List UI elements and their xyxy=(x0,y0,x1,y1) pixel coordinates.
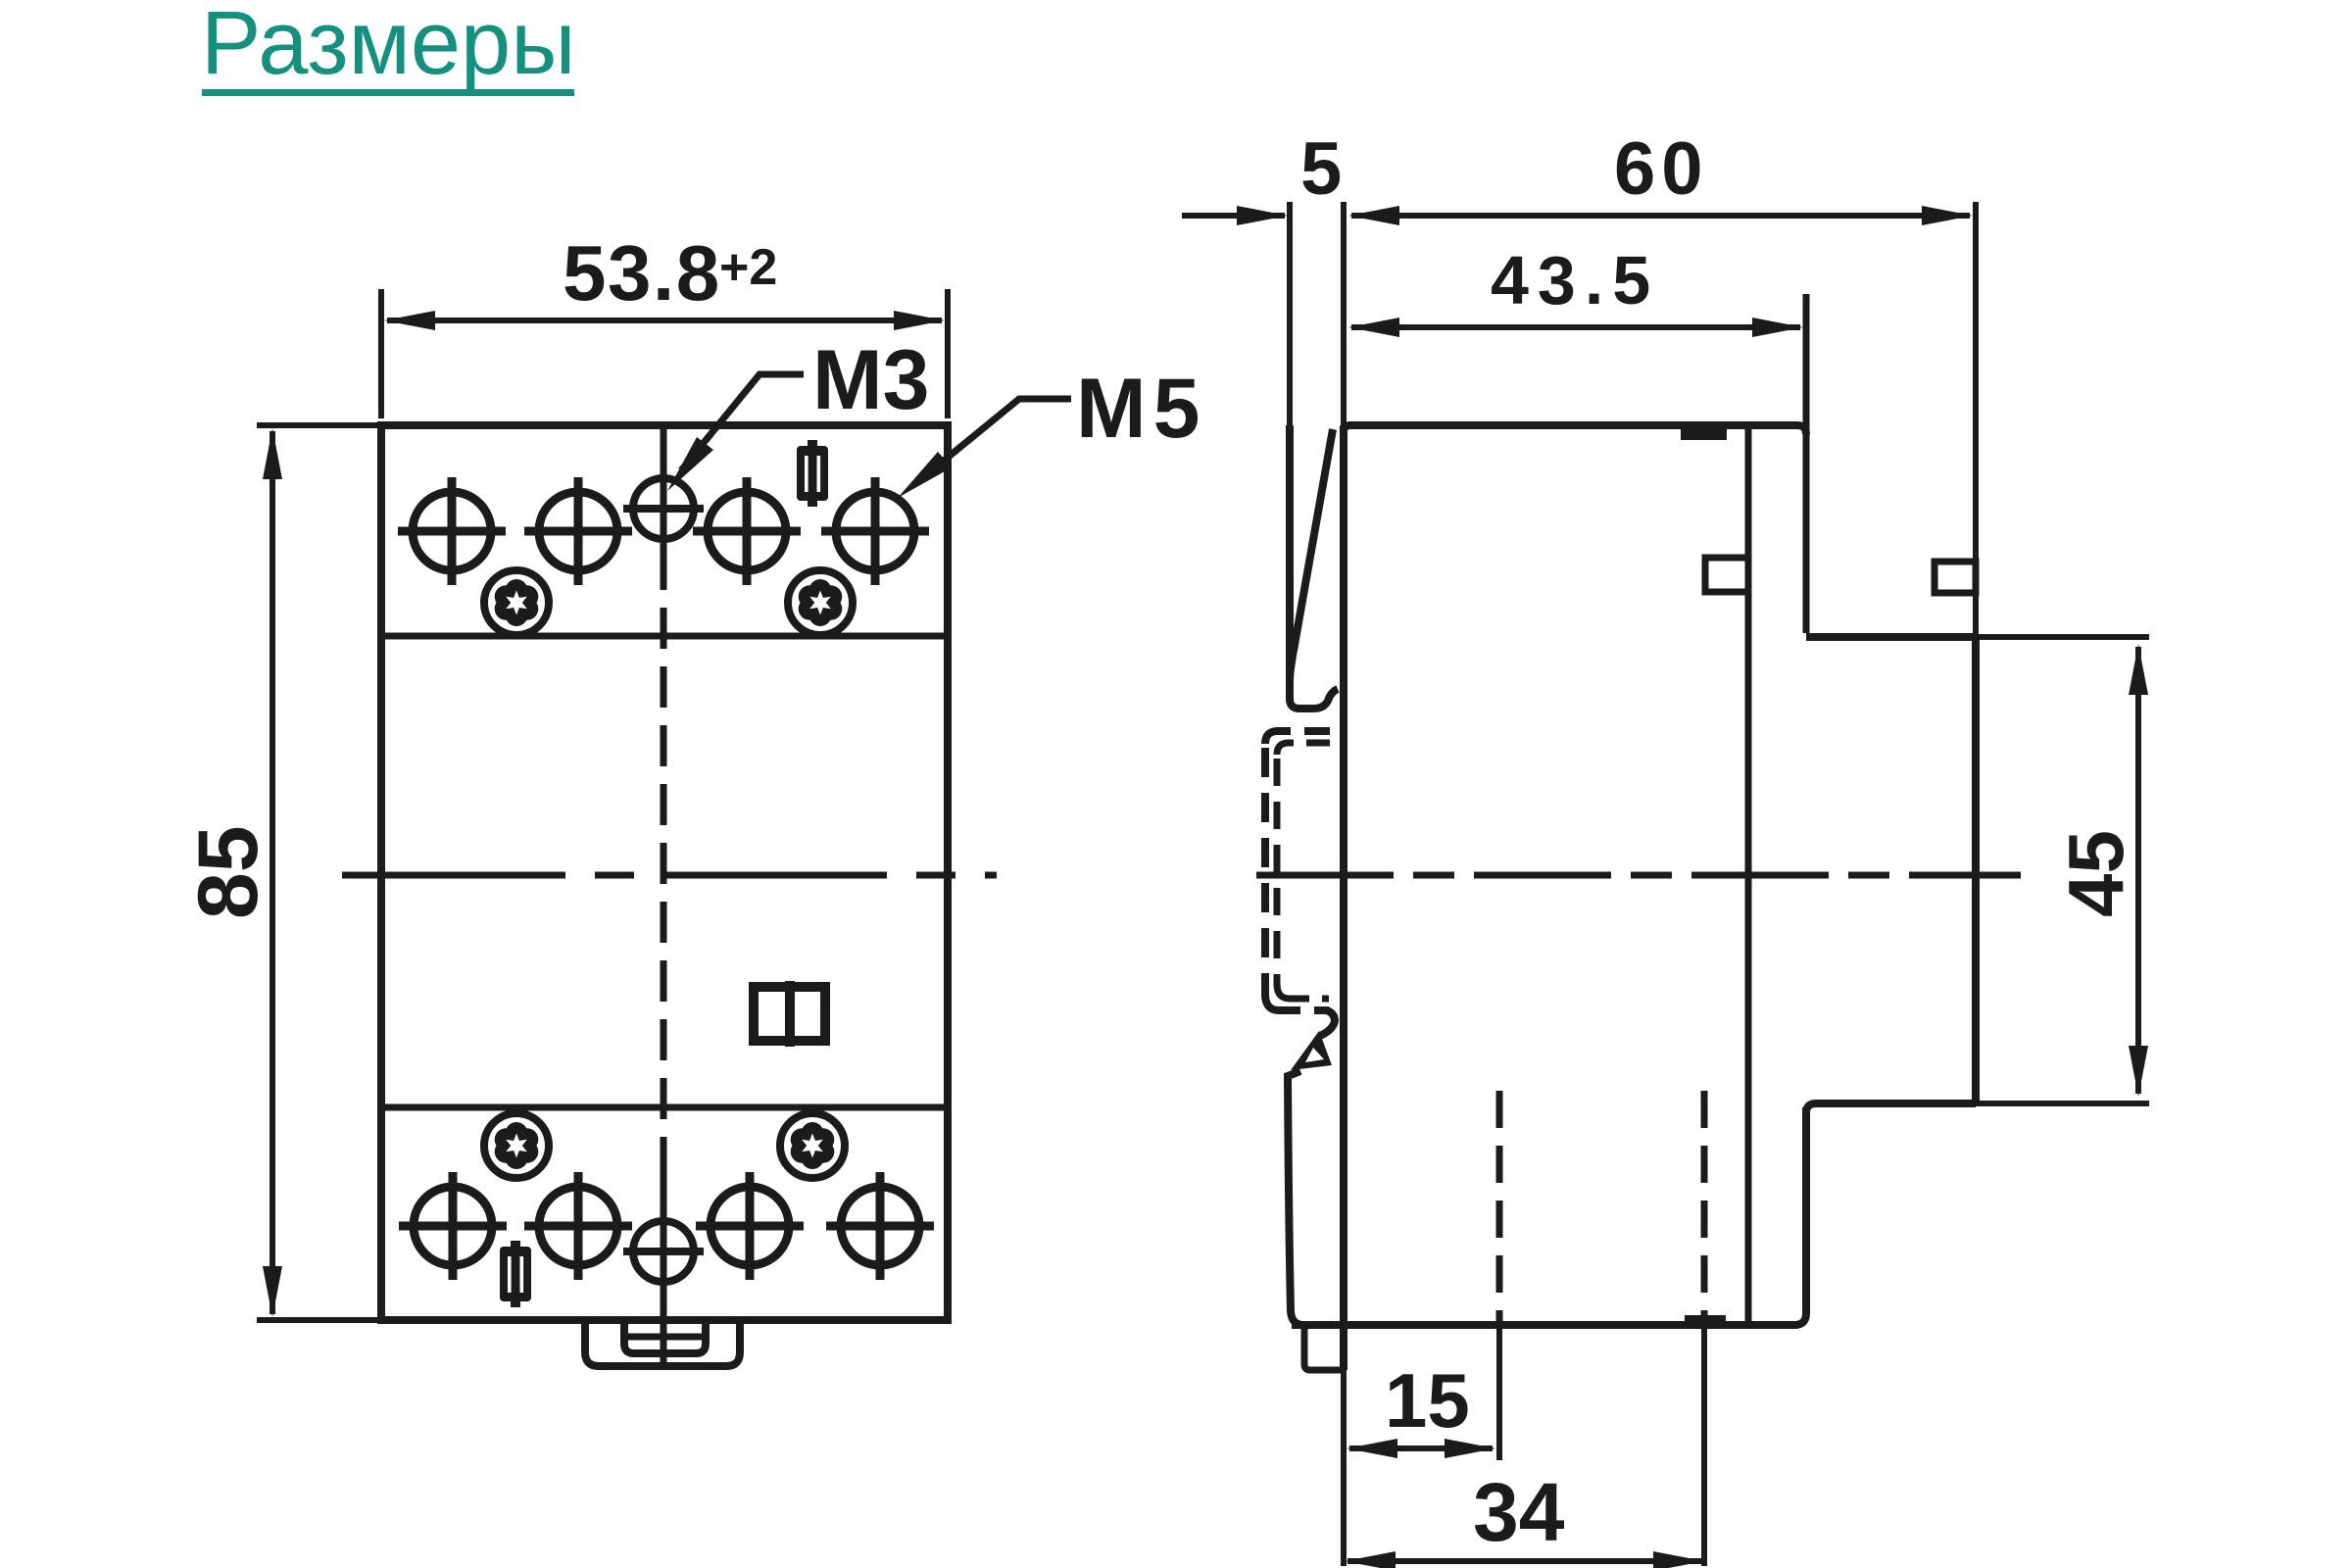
side view step extension to 45 dim xyxy=(1976,634,2149,640)
terminal screw top 3 xyxy=(693,477,801,585)
dimension 5 xyxy=(1182,206,1288,225)
svg-text:M5: M5 xyxy=(1076,362,1206,456)
dimension 85 xyxy=(257,425,377,1320)
DIN clip spring bracket inner xyxy=(1277,743,1330,999)
torx screw bottom right xyxy=(780,1113,845,1178)
title Размеры xyxy=(201,0,575,96)
dimension 45 xyxy=(2129,644,2148,1097)
clamp icon bottom xyxy=(500,1241,531,1307)
side view bottom black mark xyxy=(1685,1315,1726,1329)
leader M5 xyxy=(898,399,1071,498)
front view horizontal center line xyxy=(342,872,997,879)
side view right edge xyxy=(1973,202,1979,1103)
DIN clip top hook xyxy=(1290,647,1338,709)
side view small tab on inner line xyxy=(1705,558,1748,592)
dimension 53.8+2 xyxy=(381,289,948,418)
svg-text:85: 85 xyxy=(181,825,275,919)
terminal screw bottom 3 xyxy=(696,1172,804,1280)
hidden line 34 (dashed) xyxy=(1701,1091,1708,1566)
terminal screw top 2 xyxy=(524,477,632,585)
clamp icon top xyxy=(797,440,828,507)
side view bottom step xyxy=(1806,1103,1976,1113)
svg-text:5: 5 xyxy=(1300,127,1342,211)
svg-text:M3: M3 xyxy=(812,333,929,427)
side view horizontal center line xyxy=(1256,872,2021,879)
front view vertical center line xyxy=(661,425,667,1362)
hidden line 15 (dashed) xyxy=(1496,1091,1503,1460)
DIN clip lower leg xyxy=(1288,1071,1303,1325)
side view step vertical edge xyxy=(1803,294,1810,633)
torx screw top left xyxy=(484,570,549,635)
DIN clip slope xyxy=(1290,429,1333,678)
front view bottom terminal zone line xyxy=(381,1104,948,1111)
svg-text:15: 15 xyxy=(1385,1357,1470,1444)
label 53.8+2 xyxy=(563,229,777,317)
side view step horizontal edge xyxy=(1806,633,1976,641)
dimension 34 xyxy=(1345,1551,1704,1568)
side view top notch mark xyxy=(1681,427,1727,440)
svg-text:43.5: 43.5 xyxy=(1491,242,1659,318)
front view body outline xyxy=(381,425,948,1320)
front view top terminal zone line xyxy=(381,633,948,640)
DIN clip bottom wedge xyxy=(1291,1031,1332,1070)
DIN clip spring bracket outer top xyxy=(1265,731,1330,1010)
svg-text:53.8: 53.8 xyxy=(563,229,721,317)
svg-text:60: 60 xyxy=(1614,127,1709,211)
DIN clip bottom wedge notch xyxy=(1305,1048,1324,1062)
side view lower right edge xyxy=(1794,1107,1806,1325)
terminal screw bottom 4 xyxy=(826,1172,934,1280)
terminal screw top 4 (M5) xyxy=(821,477,929,585)
side view right notch xyxy=(1935,562,1976,593)
side view top edge xyxy=(1344,425,1806,434)
side view body left edge xyxy=(1341,202,1347,1566)
dimension 43.5 xyxy=(1348,318,1803,337)
coil window icon xyxy=(754,981,825,1047)
dimension 60 xyxy=(1348,206,1973,225)
terminal screw top 1 xyxy=(398,477,506,585)
terminal screw bottom 1 xyxy=(399,1172,507,1280)
svg-text:34: 34 xyxy=(1473,1466,1565,1558)
DIN clip outer face xyxy=(1287,202,1293,694)
torx screw bottom left xyxy=(484,1113,549,1178)
DIN clip tab front view xyxy=(585,1324,740,1366)
torx screw top right xyxy=(788,570,853,635)
leader M3 xyxy=(667,374,804,491)
svg-text:45: 45 xyxy=(2052,830,2139,917)
M3 screw top xyxy=(623,478,704,539)
terminal screw bottom 2 xyxy=(524,1172,632,1280)
DIN clip bottom hook neck xyxy=(1320,1010,1335,1036)
M3 screw bottom xyxy=(623,1221,704,1282)
side view pull tab xyxy=(1304,1325,1344,1370)
side view inner vertical line xyxy=(1745,425,1752,1325)
svg-text:+2: +2 xyxy=(719,239,777,296)
side view bottom edge xyxy=(1292,1321,1797,1329)
dimension 15 xyxy=(1347,1439,1495,1458)
side view bottom step extension to 45 dim xyxy=(1976,1101,2149,1106)
svg-text:Размеры: Размеры xyxy=(201,0,575,93)
